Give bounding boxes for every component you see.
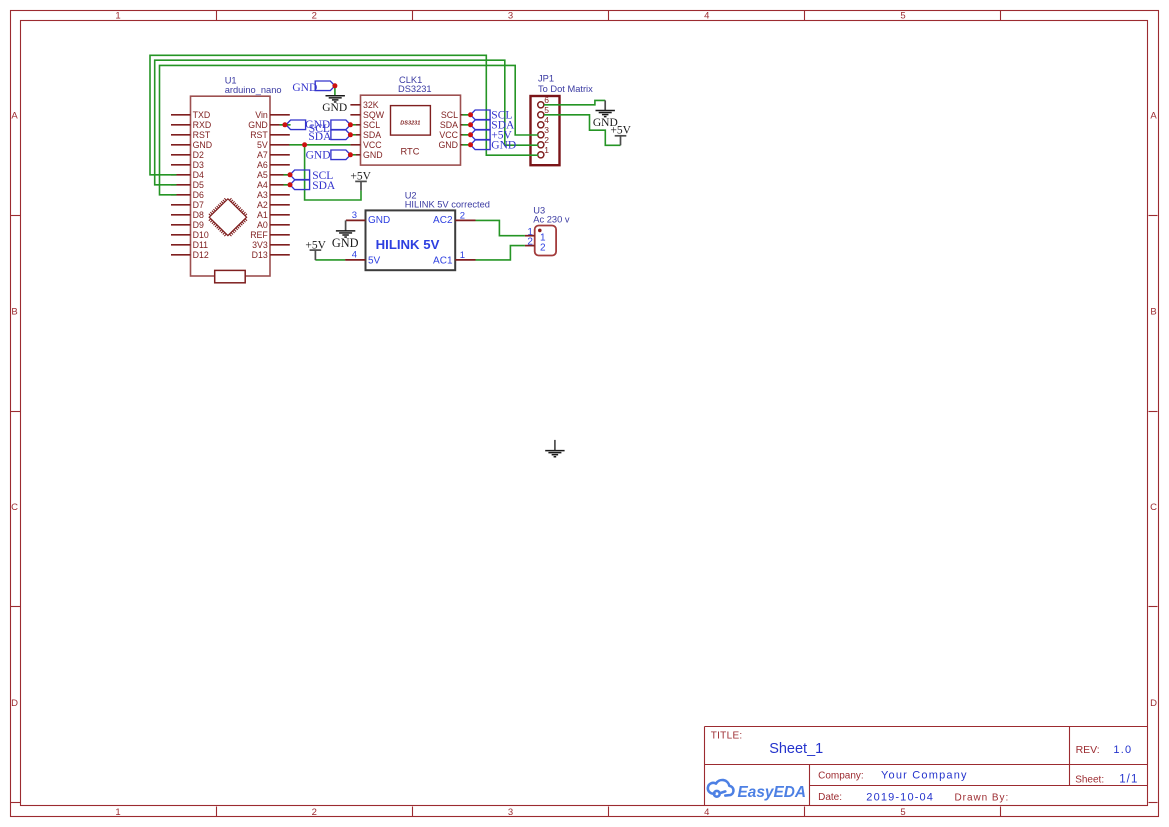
svg-text:4: 4 bbox=[544, 115, 549, 125]
svg-text:Company:: Company: bbox=[818, 771, 864, 782]
svg-text:2: 2 bbox=[460, 211, 465, 222]
svg-text:D6: D6 bbox=[193, 190, 204, 200]
svg-text:4: 4 bbox=[352, 250, 357, 261]
svg-text:TITLE:: TITLE: bbox=[711, 731, 743, 742]
svg-text:EasyEDA: EasyEDA bbox=[738, 784, 806, 801]
svg-text:GND: GND bbox=[248, 120, 268, 130]
svg-text:D8: D8 bbox=[193, 210, 204, 220]
svg-text:A5: A5 bbox=[257, 170, 268, 180]
svg-text:5: 5 bbox=[900, 10, 905, 21]
svg-text:D3: D3 bbox=[193, 160, 204, 170]
svg-text:A6: A6 bbox=[257, 160, 268, 170]
svg-text:Ac 230 v: Ac 230 v bbox=[533, 215, 570, 225]
svg-text:+5V: +5V bbox=[305, 239, 326, 251]
svg-text:AC2: AC2 bbox=[433, 215, 453, 226]
svg-text:D: D bbox=[11, 698, 18, 709]
svg-text:+5V: +5V bbox=[610, 125, 631, 137]
svg-text:A2: A2 bbox=[257, 200, 268, 210]
svg-text:A3: A3 bbox=[257, 190, 268, 200]
svg-text:+5V: +5V bbox=[350, 170, 371, 182]
svg-text:C: C bbox=[1150, 502, 1157, 513]
svg-text:2: 2 bbox=[312, 10, 317, 21]
svg-text:AC1: AC1 bbox=[433, 255, 453, 266]
svg-text:3: 3 bbox=[508, 807, 513, 818]
svg-text:GND: GND bbox=[292, 82, 317, 94]
svg-text:TXD: TXD bbox=[193, 110, 211, 120]
svg-text:5: 5 bbox=[544, 105, 549, 115]
svg-text:arduino_nano: arduino_nano bbox=[225, 85, 282, 95]
svg-text:D: D bbox=[1150, 698, 1157, 709]
svg-text:D9: D9 bbox=[193, 220, 204, 230]
svg-text:SCL: SCL bbox=[363, 120, 380, 130]
svg-text:DS3231: DS3231 bbox=[398, 84, 432, 94]
svg-text:D10: D10 bbox=[193, 230, 209, 240]
svg-text:A7: A7 bbox=[257, 150, 268, 160]
svg-text:32K: 32K bbox=[363, 100, 379, 110]
svg-text:4: 4 bbox=[704, 807, 709, 818]
svg-text:2019-10-04: 2019-10-04 bbox=[866, 792, 934, 804]
svg-text:3: 3 bbox=[508, 10, 513, 21]
svg-text:A0: A0 bbox=[257, 220, 268, 230]
svg-text:2: 2 bbox=[544, 135, 549, 145]
svg-text:1: 1 bbox=[544, 145, 549, 155]
svg-text:GND: GND bbox=[193, 140, 213, 150]
svg-text:D12: D12 bbox=[193, 250, 209, 260]
svg-text:Drawn By:: Drawn By: bbox=[955, 793, 1010, 804]
svg-text:B: B bbox=[1150, 306, 1156, 317]
svg-text:D11: D11 bbox=[193, 240, 209, 250]
svg-text:Date:: Date: bbox=[818, 792, 842, 803]
svg-text:2: 2 bbox=[540, 242, 546, 253]
svg-text:RST: RST bbox=[250, 130, 268, 140]
svg-text:1: 1 bbox=[460, 250, 465, 261]
svg-text:3: 3 bbox=[352, 210, 357, 221]
svg-text:DS3231: DS3231 bbox=[400, 120, 420, 126]
svg-text:5V: 5V bbox=[368, 255, 381, 266]
svg-text:Vin: Vin bbox=[255, 110, 268, 120]
svg-text:GND: GND bbox=[491, 140, 516, 152]
svg-text:GND: GND bbox=[306, 149, 331, 161]
svg-text:1: 1 bbox=[115, 807, 120, 818]
svg-text:Sheet_1: Sheet_1 bbox=[769, 741, 823, 757]
svg-text:RST: RST bbox=[193, 130, 211, 140]
svg-text:SDA: SDA bbox=[308, 131, 332, 143]
svg-text:3V3: 3V3 bbox=[252, 240, 268, 250]
svg-text:SCL: SCL bbox=[441, 110, 458, 120]
svg-text:Sheet:: Sheet: bbox=[1075, 774, 1104, 785]
svg-text:A1: A1 bbox=[257, 210, 268, 220]
svg-text:A: A bbox=[11, 111, 18, 122]
svg-text:VCC: VCC bbox=[439, 130, 458, 140]
svg-text:2: 2 bbox=[312, 807, 317, 818]
svg-text:1: 1 bbox=[115, 10, 120, 21]
svg-text:A: A bbox=[1150, 111, 1157, 122]
svg-text:HILINK 5V corrected: HILINK 5V corrected bbox=[405, 199, 490, 209]
svg-text:RTC: RTC bbox=[401, 146, 420, 156]
svg-text:SDA: SDA bbox=[363, 130, 381, 140]
svg-text:SDA: SDA bbox=[312, 180, 336, 192]
svg-text:GND: GND bbox=[332, 236, 359, 250]
svg-text:GND: GND bbox=[363, 150, 383, 160]
svg-text:Your Company: Your Company bbox=[881, 770, 968, 782]
svg-text:VCC: VCC bbox=[363, 140, 382, 150]
svg-text:D2: D2 bbox=[193, 150, 204, 160]
svg-text:SDA: SDA bbox=[440, 120, 458, 130]
svg-text:To Dot Matrix: To Dot Matrix bbox=[538, 84, 593, 94]
svg-text:JP1: JP1 bbox=[538, 74, 554, 84]
svg-text:D5: D5 bbox=[193, 180, 204, 190]
svg-text:D4: D4 bbox=[193, 170, 204, 180]
svg-text:A4: A4 bbox=[257, 180, 268, 190]
svg-text:SQW: SQW bbox=[363, 110, 385, 120]
svg-text:RXD: RXD bbox=[193, 120, 212, 130]
svg-text:REF: REF bbox=[250, 230, 268, 240]
svg-text:GND: GND bbox=[368, 215, 390, 226]
svg-text:D13: D13 bbox=[252, 250, 268, 260]
svg-text:1.0: 1.0 bbox=[1113, 744, 1132, 756]
svg-text:5V: 5V bbox=[257, 140, 268, 150]
svg-text:HILINK 5V: HILINK 5V bbox=[376, 237, 440, 252]
svg-text:GND: GND bbox=[438, 140, 458, 150]
svg-text:C: C bbox=[11, 502, 18, 513]
svg-text:GND: GND bbox=[322, 102, 347, 114]
svg-text:5: 5 bbox=[900, 807, 905, 818]
svg-text:REV:: REV: bbox=[1076, 744, 1100, 756]
svg-text:4: 4 bbox=[704, 10, 709, 21]
svg-text:1/1: 1/1 bbox=[1119, 773, 1138, 785]
svg-text:3: 3 bbox=[544, 125, 549, 135]
svg-text:6: 6 bbox=[544, 95, 549, 105]
svg-text:D7: D7 bbox=[193, 200, 204, 210]
svg-text:B: B bbox=[11, 306, 17, 317]
